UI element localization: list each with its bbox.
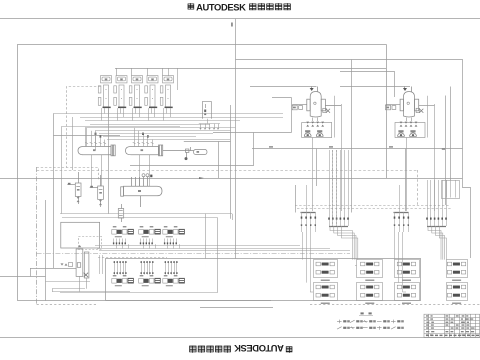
dashed box near column [79, 237, 102, 250]
wire: left horizontal y268 [30, 268, 76, 270]
expansion unit E5 [160, 68, 173, 107]
distribution header H2 [329, 226, 348, 228]
wire: vertical x445 riser [445, 96, 447, 206]
wire: top manifold y68 [115, 68, 386, 70]
vessel V3 [121, 177, 162, 207]
heat exchanger HX2 [126, 145, 163, 156]
wire: horizontal y141.3 [184, 141, 231, 143]
fan coil box FC7 [447, 260, 468, 278]
tank T2 [400, 87, 419, 118]
heat exchanger HX1 [78, 145, 115, 156]
expansion unit E2 [114, 68, 127, 107]
wires lower-left cluster [46, 276, 131, 291]
legend header [361, 312, 364, 314]
fan coil box FC8 [447, 283, 468, 301]
wire: vertical x230.5 [230, 105, 232, 219]
title block middle cells [446, 315, 449, 316]
wire: vertical x316 riser [316, 149, 318, 186]
AHU cluster B2 [139, 279, 154, 284]
dashed cross routes [295, 205, 450, 207]
expansion unit E3 [129, 68, 142, 107]
wire: supply header to tank T2 [340, 86, 410, 88]
legend item r2c3 [363, 327, 368, 329]
legend item r1c3 [363, 321, 368, 323]
tag on central wire [231, 23, 233, 27]
flow arrow on y178 [199, 177, 204, 179]
wire: horizontal y307 [200, 307, 273, 309]
main header line y178 [0, 178, 462, 180]
wire: vertical x291.5 [291, 98, 293, 133]
wire: right horizontal y71 [340, 71, 394, 73]
wire: vertical x295.5 riser [295, 185, 297, 213]
AHU cluster A2 [139, 230, 154, 235]
long drops from H1 to fan boxes [303, 232, 403, 292]
title block text [426, 315, 429, 316]
wire: left edge horizontal y276.5 [0, 276, 46, 278]
wire: supply header to tank T1 [250, 86, 317, 88]
fan coil box FC4 [357, 283, 383, 301]
expansion unit E4 [145, 68, 158, 107]
wire: horizontal y165.5 [130, 165, 254, 167]
drawing boundary box [18, 45, 387, 301]
wire: right top horizontal y59.5 [236, 60, 471, 259]
pump skid PS1 [163, 147, 207, 158]
label ticks on y149 [269, 146, 273, 147]
dash-dot vertical x36.6 [36, 167, 38, 305]
tank T1 [307, 87, 326, 118]
comb under CU1 [199, 119, 220, 129]
watermark top: 由 AUTODESK 学生版生成 [188, 2, 290, 13]
softener column SC1 [61, 222, 100, 278]
fan coil box FC1 [314, 260, 338, 278]
distribution header H3 [394, 212, 409, 214]
wire: vertical x218 [218, 141, 220, 178]
wire: horizontal y132.5 [213, 132, 292, 134]
fan coil box FC2 [314, 283, 338, 301]
big lower enclosure box [106, 259, 421, 301]
title block table [424, 314, 480, 337]
dash-dot route y253 [37, 253, 350, 255]
wire: left horizontal y135.2 [53, 135, 120, 137]
legend item r1c5 [391, 321, 396, 323]
wire: mid horizontals y213.7 y217.5 [60, 214, 233, 259]
legend item r1c1 [337, 321, 342, 323]
dashed enclosure top row B [98, 257, 167, 259]
wire: vertical x351 [351, 60, 353, 213]
dashed corner y167 [37, 168, 99, 182]
distribution header H4 [427, 226, 446, 228]
fan coil box FC3 [357, 260, 383, 278]
dashed horizontal y304.5 right [310, 304, 480, 306]
pump cross [84, 273, 88, 277]
legend item r2c4 [377, 327, 382, 329]
wire: vertical x217.4 [60, 218, 218, 293]
fan coil box FC5 [395, 260, 420, 278]
small unit S1 [67, 172, 81, 204]
wire: horizontal y149 [252, 148, 463, 150]
small unit S2 [90, 175, 104, 207]
pipe runs above heat exchangers [73, 117, 236, 170]
legend item r1c4 [377, 321, 382, 323]
wire: left vertical x53.3 [53, 114, 55, 269]
legend item r1c2 [350, 320, 355, 322]
riser drops to row B [100, 255, 177, 275]
collector unit CU1 [203, 101, 212, 119]
dashed risers [332, 150, 334, 226]
legend item r2c2 [350, 327, 355, 329]
valve station VS1 [118, 204, 123, 222]
watermark separator line top [0, 18, 480, 20]
upper right box [442, 181, 460, 199]
wire: vertical x253.8 [253, 133, 255, 166]
svg-text:AUTODESK: AUTODESK [234, 343, 284, 354]
wire: vertical x405 riser [405, 149, 407, 211]
dashed vertical x417 [417, 170, 419, 206]
svg-text:AUTODESK: AUTODESK [196, 2, 246, 13]
legend item r2c5 [391, 327, 396, 329]
watermark separator line bottom [0, 337, 480, 339]
wire: left vertical x45.5 [45, 200, 47, 301]
wire: horizontal y97.5 [272, 97, 292, 99]
AHU cluster B3 [163, 279, 178, 284]
AHU cluster A3 [163, 230, 178, 235]
wire: vertical x394 [394, 71, 396, 97]
valves left of column [61, 263, 64, 265]
distribution header H1 [301, 212, 316, 214]
title block mid entries [446, 318, 449, 319]
AHU cluster B1 [112, 279, 127, 284]
fan coil box FC6 [395, 283, 420, 301]
watermark bottom (rotated) [190, 343, 292, 354]
bus lines under units [53, 114, 283, 214]
connection drops to fan coil boxes [307, 266, 407, 293]
wire: long drop x108.8 [108, 108, 110, 214]
legend item r2c1 [337, 327, 342, 329]
dashed horizontal y304.5 [37, 304, 98, 306]
wire: vertical x450 [450, 87, 452, 181]
AHU cluster A1 [112, 230, 127, 235]
expansion unit E1 [98, 76, 111, 107]
dashed horizontal y170 [37, 170, 417, 172]
dashed corner x66.3/y86.3 [67, 87, 101, 168]
wire: vertical x30 stub [30, 268, 32, 277]
wire: central vertical from watermark line [235, 19, 237, 259]
wire: mid routing bundle y245-253 [95, 246, 350, 251]
manifold end drops [168, 68, 170, 76]
